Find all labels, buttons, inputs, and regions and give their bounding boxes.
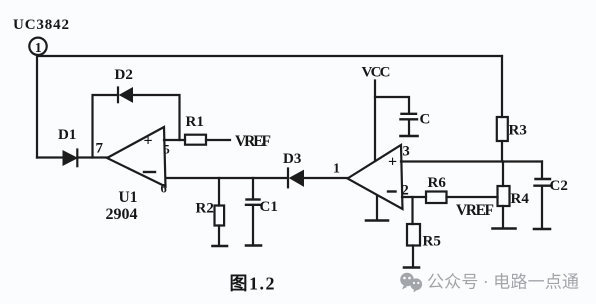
svg-text:R3: R3 xyxy=(509,123,527,139)
pin 1 label xyxy=(333,162,340,177)
wire pin7 output row xyxy=(37,156,107,158)
resistor R1 xyxy=(185,114,206,145)
svg-text:R2: R2 xyxy=(196,201,214,217)
svg-text:图1.2: 图1.2 xyxy=(230,274,275,294)
net label VREF left xyxy=(235,133,271,150)
watermark text xyxy=(427,273,579,292)
capacitor C xyxy=(375,97,430,135)
svg-text:VREF: VREF xyxy=(456,202,494,219)
svg-text:D1: D1 xyxy=(58,127,76,143)
svg-text:公众号 · 电路一点通: 公众号 · 电路一点通 xyxy=(427,273,579,292)
pin 1 terminal circle xyxy=(29,38,46,56)
ground C1 xyxy=(246,244,261,247)
pin 6 label xyxy=(161,182,167,196)
ground R2 xyxy=(213,245,228,248)
svg-text:6: 6 xyxy=(161,182,167,196)
pin 3 label xyxy=(403,144,410,160)
svg-text:C1: C1 xyxy=(260,199,278,215)
pin 5 label xyxy=(164,143,170,157)
svg-text:R1: R1 xyxy=(186,114,204,130)
svg-text:7: 7 xyxy=(96,141,104,157)
svg-text:VREF: VREF xyxy=(235,133,271,150)
svg-text:2904: 2904 xyxy=(106,206,138,223)
resistor R4 xyxy=(498,162,530,228)
diode D3 xyxy=(283,151,304,187)
svg-text:U1: U1 xyxy=(119,189,138,206)
wire pin5 to R1 xyxy=(164,139,185,141)
svg-text:UC3842: UC3842 xyxy=(13,17,69,33)
svg-text:+: + xyxy=(144,133,153,150)
wire left drop xyxy=(36,55,38,158)
svg-text:1: 1 xyxy=(333,162,340,177)
diode D1 xyxy=(58,127,77,166)
svg-text:3: 3 xyxy=(403,144,410,160)
watermark logo xyxy=(400,273,422,293)
wire R1 to VREF xyxy=(206,139,230,141)
pin 2 label xyxy=(402,183,409,199)
capacitor C2 xyxy=(535,162,568,228)
power rail VCC xyxy=(362,65,391,162)
wire pin3 row xyxy=(401,160,542,162)
caption 图1.2 xyxy=(230,274,275,294)
wire top rail xyxy=(39,55,502,57)
wire pin2 row xyxy=(402,196,498,198)
svg-text:1: 1 xyxy=(35,41,42,56)
wire pin6 row xyxy=(166,177,347,179)
svg-text:D3: D3 xyxy=(283,151,301,167)
svg-text:5: 5 xyxy=(164,143,170,157)
IC label UC3842 xyxy=(13,17,69,33)
ground R5 xyxy=(404,266,419,269)
op-amp U2 xyxy=(348,145,403,209)
resistor R2 xyxy=(196,178,225,245)
label 2904 xyxy=(106,206,138,223)
ground C xyxy=(401,135,418,138)
op-amp U1 xyxy=(107,127,166,187)
svg-text:R4: R4 xyxy=(511,191,530,207)
resistor R5 xyxy=(407,197,441,266)
wire right drop xyxy=(501,56,503,117)
capacitor C1 xyxy=(246,178,278,244)
svg-text:C: C xyxy=(420,112,431,128)
ground C2 xyxy=(534,228,550,231)
pin 7 label xyxy=(96,141,104,157)
svg-text:VCC: VCC xyxy=(362,65,391,81)
wire D2 feedback loop xyxy=(93,95,180,158)
svg-text:+: + xyxy=(388,154,397,171)
svg-text:R6: R6 xyxy=(428,175,447,191)
net label VREF right xyxy=(456,202,494,219)
svg-text:D2: D2 xyxy=(115,67,133,83)
svg-text:R5: R5 xyxy=(423,234,441,250)
diode D2 xyxy=(115,67,133,102)
label U1 xyxy=(119,189,138,206)
resistor R6 xyxy=(426,175,447,203)
resistor R3 xyxy=(497,117,527,162)
ground U2 xyxy=(366,196,388,221)
ground R4 xyxy=(493,227,516,230)
svg-text:C2: C2 xyxy=(550,178,568,194)
